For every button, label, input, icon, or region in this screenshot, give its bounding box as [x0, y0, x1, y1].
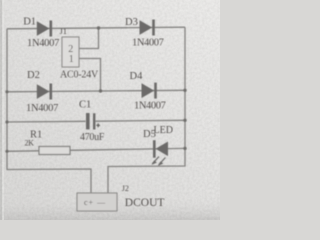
svg-text:C1: C1	[79, 100, 91, 111]
svg-text:2K: 2K	[25, 139, 35, 148]
svg-text:D2: D2	[27, 70, 40, 81]
svg-text:DCOUT: DCOUT	[125, 197, 165, 209]
svg-text:1N4007: 1N4007	[132, 38, 164, 49]
svg-text:c+ —: c+ —	[84, 198, 106, 207]
svg-text:1N4007: 1N4007	[134, 101, 166, 112]
svg-text:J2: J2	[122, 184, 129, 193]
svg-text:AC0-24V: AC0-24V	[60, 69, 99, 80]
svg-text:D3: D3	[125, 17, 138, 28]
svg-text:J1: J1	[60, 26, 68, 36]
svg-text:D4: D4	[130, 71, 144, 82]
svg-text:470uF: 470uF	[80, 132, 105, 143]
svg-text:D1: D1	[23, 17, 36, 28]
svg-text:1: 1	[69, 54, 74, 65]
svg-text:1N4007: 1N4007	[26, 103, 58, 114]
svg-text:1N4007: 1N4007	[27, 38, 59, 49]
svg-text:LED: LED	[154, 125, 173, 136]
